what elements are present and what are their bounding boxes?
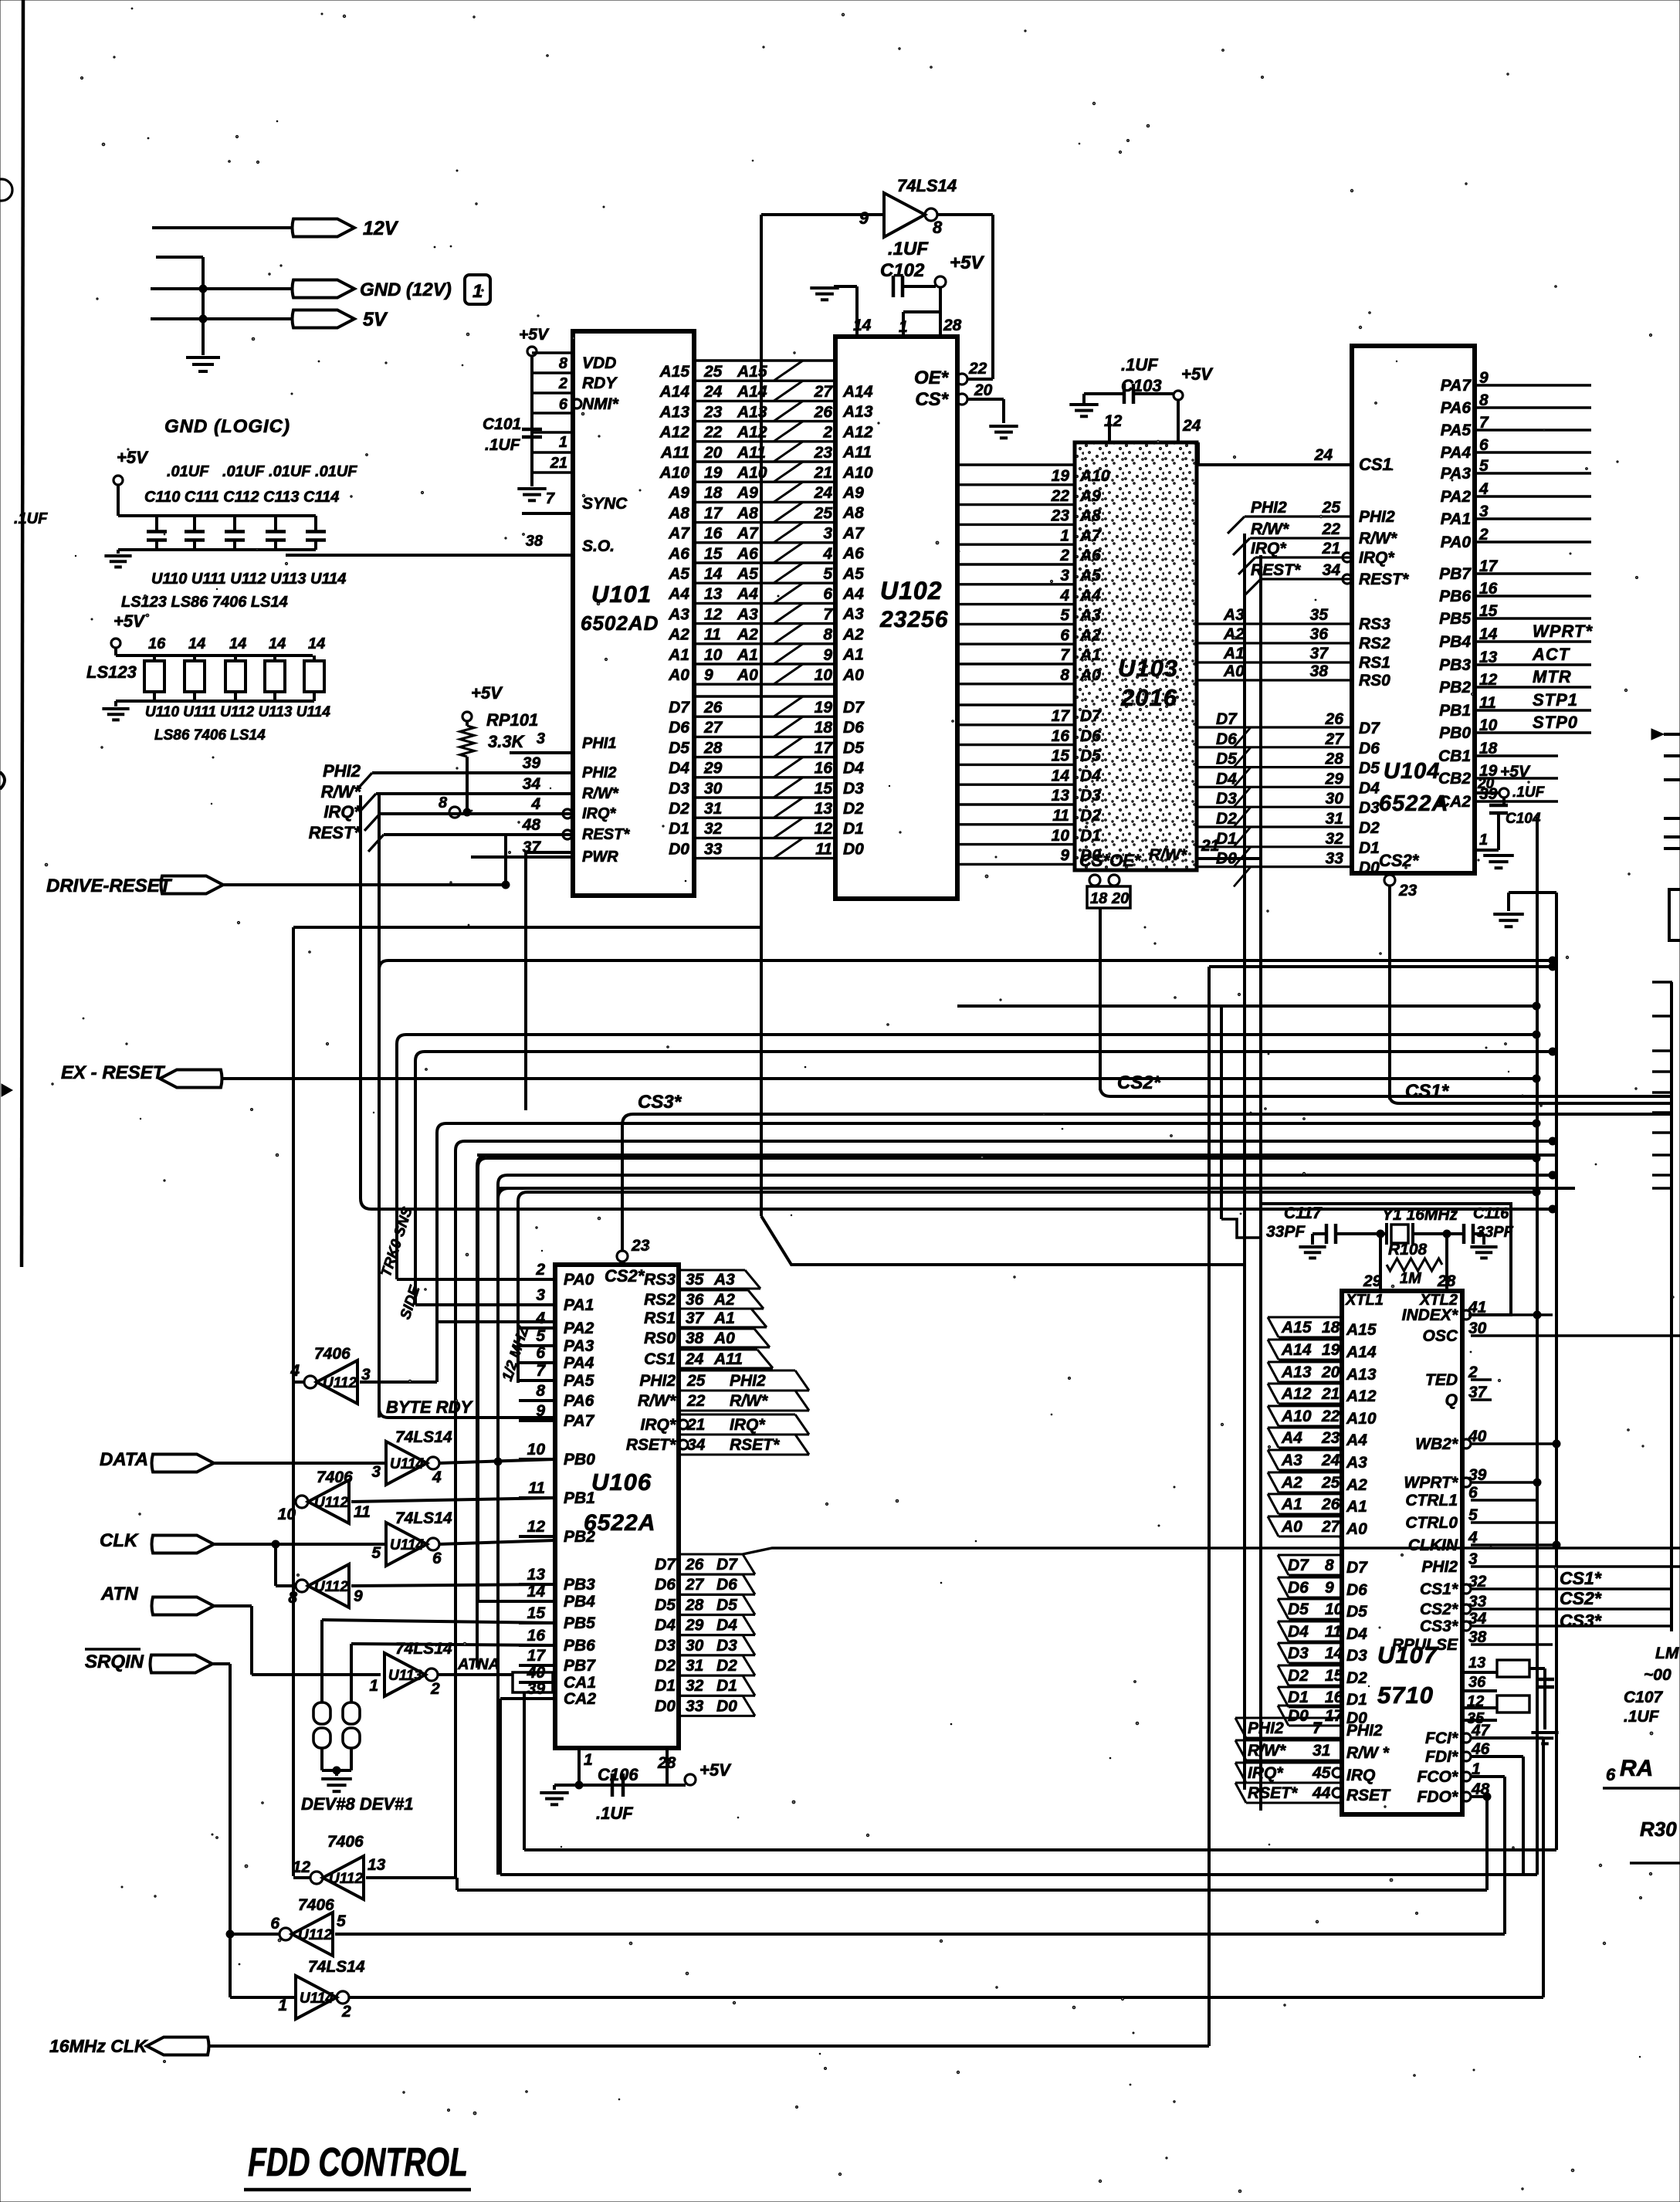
svg-text:PHI1: PHI1 [582,735,616,752]
svg-text:4: 4 [822,545,832,563]
svg-text:33: 33 [704,840,723,858]
svg-text:17: 17 [815,739,834,757]
svg-text:8: 8 [288,1589,297,1607]
svg-text:WB2*: WB2* [1415,1435,1458,1453]
svg-text:A7: A7 [668,525,690,543]
svg-text:BYTE RDY: BYTE RDY [386,1397,474,1417]
svg-text:PA0: PA0 [564,1271,594,1289]
svg-text:FCO*: FCO* [1417,1768,1458,1786]
svg-text:D4: D4 [655,1617,676,1635]
svg-text:PB0: PB0 [564,1451,595,1469]
svg-text:A1: A1 [668,646,689,664]
svg-text:RS3: RS3 [1359,615,1390,633]
svg-text:D4: D4 [716,1617,737,1635]
svg-text:RS0: RS0 [1359,672,1390,689]
svg-text:5: 5 [337,1912,346,1930]
svg-text:S.O.: S.O. [582,537,615,555]
svg-text:38: 38 [686,1330,704,1347]
svg-text:D5: D5 [1080,747,1101,765]
svg-text:3: 3 [537,730,545,747]
svg-text:R/W*: R/W* [1248,1742,1286,1760]
svg-text:PHI2: PHI2 [1248,1719,1284,1737]
svg-text:D5: D5 [716,1596,737,1614]
svg-text:5: 5 [1060,607,1069,625]
svg-text:A0: A0 [713,1330,735,1347]
svg-text:D3: D3 [1359,799,1380,817]
svg-text:R108: R108 [1388,1241,1428,1259]
svg-text:1: 1 [472,281,483,302]
svg-text:D1: D1 [843,820,864,838]
svg-text:14: 14 [229,635,246,652]
svg-text:FCI*: FCI* [1425,1729,1458,1747]
svg-text:22: 22 [968,360,987,378]
svg-text:D6: D6 [655,1576,676,1594]
svg-text:D1: D1 [1080,827,1101,845]
svg-text:74LS14: 74LS14 [395,1509,452,1527]
svg-text:IRQ*: IRQ* [730,1416,765,1434]
svg-text:PB0: PB0 [1439,724,1471,742]
svg-text:11: 11 [354,1503,371,1521]
svg-text:36: 36 [1468,1674,1486,1691]
svg-text:IRQ*: IRQ* [1359,549,1394,567]
svg-text:RSET*: RSET* [626,1436,676,1454]
svg-text:A2: A2 [1346,1476,1367,1494]
svg-text:6: 6 [823,585,832,603]
svg-text:22: 22 [1322,520,1341,538]
svg-text:33: 33 [686,1697,704,1715]
svg-text:7: 7 [1060,646,1070,664]
svg-text:D6: D6 [1288,1579,1309,1597]
svg-text:R/W *: R/W * [1346,1744,1390,1762]
svg-text:PB5: PB5 [564,1614,595,1632]
svg-text:A12: A12 [842,423,873,441]
svg-text:10: 10 [1052,827,1070,845]
svg-text:IRQ*: IRQ* [323,802,361,822]
svg-text:A9: A9 [668,484,689,502]
svg-text:A10: A10 [1281,1408,1312,1425]
svg-text:A3: A3 [737,605,758,623]
svg-text:24: 24 [703,383,723,401]
svg-text:7406: 7406 [298,1896,334,1914]
svg-text:RS0: RS0 [644,1330,676,1347]
svg-text:EX - RESET: EX - RESET [61,1062,166,1083]
svg-text:U112: U112 [298,1927,332,1943]
svg-text:RS3: RS3 [644,1271,676,1289]
svg-text:PB7: PB7 [564,1657,596,1675]
svg-text:28: 28 [1325,750,1344,768]
svg-text:A8: A8 [842,504,864,522]
svg-text:NMI*: NMI* [582,395,618,413]
svg-text:13: 13 [815,800,833,818]
svg-text:3: 3 [1060,567,1069,584]
svg-text:~00: ~00 [1644,1666,1672,1684]
svg-text:ATN: ATN [100,1584,138,1604]
svg-text:D6: D6 [669,719,689,737]
svg-text:A2: A2 [842,625,864,643]
svg-text:D4: D4 [1346,1625,1367,1643]
svg-text:9: 9 [1060,847,1069,865]
svg-text:TED: TED [1425,1371,1458,1389]
svg-text:PB4: PB4 [564,1593,595,1611]
svg-text:D1: D1 [655,1677,676,1695]
svg-text:17: 17 [704,504,723,522]
svg-text:7406: 7406 [317,1469,353,1486]
svg-text:A8: A8 [1079,507,1101,525]
svg-text:22: 22 [1051,487,1070,505]
svg-text:A2: A2 [1223,625,1245,643]
svg-text:26: 26 [814,403,833,421]
svg-text:CLK: CLK [100,1530,139,1551]
svg-text:.1UF: .1UF [1512,784,1546,801]
svg-text:D5: D5 [1359,760,1380,777]
svg-text:D4: D4 [1216,770,1237,788]
svg-text:23: 23 [1398,882,1417,899]
svg-text:6: 6 [432,1550,442,1567]
svg-text:74LS14: 74LS14 [395,1428,452,1446]
svg-text:PA3: PA3 [564,1337,594,1355]
svg-text:27: 27 [1321,1518,1341,1536]
svg-text:+5V: +5V [113,611,146,631]
svg-text:GND (12V): GND (12V) [360,279,452,300]
svg-text:19: 19 [815,699,833,716]
svg-text:REST*: REST* [1359,571,1409,588]
svg-text:D3: D3 [1346,1647,1367,1665]
svg-text:RS1: RS1 [644,1309,676,1327]
svg-text:D7: D7 [1288,1557,1309,1574]
svg-text:36: 36 [1310,625,1329,643]
svg-text:D7: D7 [1216,710,1238,728]
svg-text:D5: D5 [1288,1601,1309,1618]
svg-text:19: 19 [1052,467,1070,485]
svg-text:A9: A9 [737,484,758,502]
svg-text:D3: D3 [655,1637,676,1655]
svg-text:A13: A13 [1346,1366,1377,1384]
svg-text:LS86 7406 LS14: LS86 7406 LS14 [154,727,266,744]
svg-text:OE*: OE* [914,368,950,388]
svg-text:74LS14: 74LS14 [395,1640,452,1658]
svg-text:24: 24 [685,1350,704,1368]
svg-text:D3: D3 [1080,787,1101,805]
svg-text:CS1*: CS1* [1405,1081,1450,1102]
svg-text:PA5: PA5 [564,1372,594,1390]
svg-text:1: 1 [1479,832,1488,849]
svg-text:16: 16 [704,525,723,543]
svg-text:+5V: +5V [519,326,550,344]
svg-text:A14: A14 [1346,1343,1377,1361]
svg-text:2: 2 [430,1680,440,1698]
svg-text:29: 29 [1325,770,1344,788]
svg-text:D7: D7 [1080,707,1102,725]
svg-text:ACT: ACT [1532,645,1570,664]
svg-text:C117: C117 [1284,1204,1323,1222]
svg-text:U112: U112 [329,1871,363,1887]
svg-text:U112: U112 [314,1579,348,1595]
svg-text:.1UF: .1UF [14,510,48,527]
svg-text:PWR: PWR [582,849,618,866]
svg-text:25: 25 [1321,1474,1340,1492]
svg-text:OSC: OSC [1422,1327,1458,1345]
svg-text:38: 38 [526,533,544,550]
svg-text:+5V: +5V [471,683,503,703]
svg-text:PB3: PB3 [564,1576,595,1594]
svg-text:A1: A1 [713,1309,735,1327]
svg-text:IRQ: IRQ [1346,1767,1375,1784]
svg-text:15: 15 [704,545,723,563]
svg-text:D4: D4 [843,760,864,777]
svg-text:LM: LM [1655,1645,1679,1662]
svg-text:18: 18 [1090,890,1108,907]
svg-text:A0: A0 [1079,666,1101,684]
svg-text:CS1*: CS1* [1420,1580,1458,1598]
svg-text:23256: 23256 [879,607,948,632]
svg-text:D1: D1 [1216,830,1237,848]
svg-text:D3: D3 [1216,790,1237,808]
svg-text:A4: A4 [1346,1431,1367,1449]
svg-text:33: 33 [1326,850,1344,868]
svg-text:22: 22 [1321,1408,1340,1425]
svg-text:21: 21 [814,464,832,482]
svg-text:INDEX*: INDEX* [1402,1306,1458,1324]
svg-text:STP1: STP1 [1533,690,1578,710]
svg-text:26: 26 [685,1556,704,1574]
svg-text:D2: D2 [1080,807,1101,825]
svg-text:CS2*: CS2* [1420,1601,1458,1618]
svg-text:5: 5 [371,1544,381,1562]
svg-text:D5: D5 [843,739,864,757]
svg-text:REST*: REST* [582,826,630,843]
svg-text:9: 9 [859,208,869,228]
svg-text:3: 3 [361,1366,371,1384]
svg-text:A10: A10 [1079,467,1110,485]
svg-text:7: 7 [546,490,555,507]
svg-text:RS2: RS2 [1359,635,1390,652]
svg-text:17: 17 [527,1647,547,1665]
svg-text:2: 2 [535,1261,545,1279]
svg-text:18: 18 [1322,1319,1340,1336]
svg-text:CLKIN: CLKIN [1408,1536,1458,1554]
svg-text:D7: D7 [669,699,690,716]
svg-text:31: 31 [1326,810,1343,828]
svg-text:D2: D2 [1346,1669,1367,1687]
svg-text:35: 35 [686,1271,704,1289]
svg-text:A0: A0 [737,666,758,684]
svg-text:A3: A3 [1223,606,1245,624]
svg-text:FDI*: FDI* [1425,1748,1458,1766]
svg-text:PB4: PB4 [1439,633,1471,651]
svg-text:D0: D0 [1359,859,1380,877]
svg-text:D2: D2 [843,800,864,818]
svg-text:D7: D7 [1346,1559,1368,1577]
svg-text:21: 21 [1321,1385,1340,1403]
svg-text:32: 32 [1326,830,1344,848]
svg-text:RP101: RP101 [486,710,538,730]
svg-text:34: 34 [687,1436,706,1454]
svg-text:20: 20 [703,444,723,462]
svg-text:24: 24 [1182,417,1201,435]
svg-text:A9: A9 [842,484,864,502]
svg-text:D5: D5 [669,739,689,757]
svg-text:PA1: PA1 [564,1296,594,1314]
svg-text:A5: A5 [668,565,689,583]
svg-text:A10: A10 [842,464,873,482]
svg-text:D1: D1 [1288,1689,1309,1706]
svg-text:RA: RA [1620,1756,1653,1781]
svg-text:PHI2: PHI2 [1346,1722,1383,1740]
svg-text:11: 11 [1052,807,1069,825]
svg-text:CS3*: CS3* [1420,1618,1458,1635]
svg-text:10: 10 [527,1441,546,1458]
svg-text:31: 31 [686,1657,703,1675]
svg-text:CS3*: CS3* [1560,1611,1602,1631]
svg-text:U114: U114 [390,1456,424,1472]
svg-text:SRQIN: SRQIN [85,1651,144,1672]
svg-text:D3: D3 [716,1637,737,1655]
svg-text:R30: R30 [1640,1817,1677,1841]
svg-text:U112: U112 [314,1495,348,1511]
svg-text:IRQ*: IRQ* [1248,1764,1283,1782]
svg-text:A13: A13 [659,403,689,421]
svg-text:DRIVE-RESET: DRIVE-RESET [46,876,173,896]
svg-text:10: 10 [815,666,833,684]
svg-text:3: 3 [536,1286,545,1304]
svg-text:14: 14 [269,635,286,652]
svg-text:CS*: CS* [915,389,949,410]
svg-text:D7: D7 [1359,720,1380,737]
svg-text:23: 23 [814,444,833,462]
svg-text:PA5: PA5 [1441,422,1472,439]
svg-text:D0: D0 [1288,1707,1309,1725]
svg-text:WPRT*: WPRT* [1533,622,1593,641]
svg-text:17: 17 [1052,707,1071,725]
svg-text:12V: 12V [363,218,399,239]
svg-text:U114: U114 [300,1990,334,2007]
svg-text:PA1: PA1 [1441,510,1471,528]
svg-text:24: 24 [1321,1452,1340,1469]
svg-text:A1: A1 [842,646,864,664]
svg-text:7406: 7406 [327,1833,364,1851]
svg-text:1: 1 [559,434,567,451]
svg-text:CB1: CB1 [1438,747,1471,765]
svg-text:1: 1 [584,1751,593,1769]
svg-text:A1: A1 [1346,1498,1367,1516]
svg-text:12: 12 [293,1858,311,1876]
svg-text:.1UF: .1UF [1121,355,1158,374]
svg-text:20: 20 [1111,890,1129,907]
svg-text:A14: A14 [1281,1341,1312,1359]
svg-text:5V: 5V [363,309,388,330]
svg-text:13: 13 [1052,787,1070,805]
svg-text:XTL1: XTL1 [1345,1292,1384,1309]
svg-text:A8: A8 [668,504,689,522]
svg-text:28: 28 [943,317,962,334]
svg-text:CS1: CS1 [1359,455,1392,474]
svg-text:A2: A2 [668,626,689,644]
svg-text:12: 12 [815,820,833,838]
svg-text:U110 U111 U112 U113 U114: U110 U111 U112 U113 U114 [151,571,346,588]
svg-text:35: 35 [1310,606,1329,624]
svg-text:A3: A3 [668,605,689,623]
svg-text:PHI2: PHI2 [730,1372,766,1390]
svg-text:CS1: CS1 [644,1350,676,1368]
svg-text:D6: D6 [716,1576,737,1594]
svg-text:PA7: PA7 [564,1412,595,1430]
svg-text:26: 26 [1321,1496,1340,1513]
svg-text:39: 39 [527,1680,546,1698]
svg-text:25: 25 [703,363,723,381]
svg-text:D2: D2 [669,800,689,818]
svg-text:A3: A3 [1281,1452,1302,1469]
svg-text:A5: A5 [737,565,758,583]
svg-text:3.3K: 3.3K [488,732,526,751]
svg-text:A5: A5 [1079,567,1101,584]
svg-text:A14: A14 [659,383,689,401]
svg-text:A11: A11 [842,444,872,462]
svg-text:CA2: CA2 [1438,793,1471,811]
svg-text:D5: D5 [1216,750,1237,768]
svg-text:A13: A13 [1281,1364,1312,1381]
svg-text:29: 29 [685,1617,704,1635]
svg-text:28: 28 [685,1596,704,1614]
svg-text:+5V: +5V [699,1760,732,1780]
svg-text:A0: A0 [668,666,689,684]
svg-text:A12: A12 [1281,1385,1312,1403]
svg-text:PB7: PB7 [1439,565,1472,583]
svg-text:30: 30 [704,780,723,798]
svg-text:C106: C106 [598,1765,638,1784]
svg-text:RS1: RS1 [1359,654,1390,672]
svg-text:14: 14 [308,635,325,652]
svg-text:U104: U104 [1384,759,1440,784]
svg-text:A3: A3 [842,605,864,623]
svg-text:1: 1 [1060,527,1069,544]
svg-text:20: 20 [1477,776,1495,792]
svg-text:D3: D3 [843,780,864,798]
svg-text:23: 23 [1321,1429,1340,1447]
svg-text:C104: C104 [1506,811,1541,827]
svg-text:36: 36 [686,1291,704,1309]
svg-text:IRQ*: IRQ* [640,1416,676,1434]
svg-text:A7: A7 [737,525,759,543]
svg-text:A4: A4 [668,585,689,603]
svg-text:A6: A6 [842,545,864,563]
svg-text:A1: A1 [1079,646,1101,664]
svg-text:25: 25 [1322,499,1341,517]
svg-text:A4: A4 [1079,587,1101,605]
svg-text:14: 14 [1052,767,1070,784]
svg-text:RSET: RSET [1346,1787,1391,1804]
svg-text:RPULSE: RPULSE [1392,1636,1458,1654]
svg-text:10: 10 [704,646,723,664]
svg-text:A2: A2 [737,626,758,644]
svg-text:14: 14 [704,565,723,583]
svg-text:PHI2: PHI2 [1359,508,1395,526]
svg-text:A15: A15 [1281,1319,1312,1336]
svg-text:FDD CONTROL: FDD CONTROL [248,2140,468,2185]
svg-text:23: 23 [1051,507,1070,525]
svg-text:A10: A10 [659,464,689,482]
svg-text:A3: A3 [713,1271,735,1289]
svg-text:19: 19 [704,464,723,482]
svg-text:9: 9 [704,666,713,684]
svg-text:PA4: PA4 [1441,444,1472,462]
svg-text:PA7: PA7 [1441,377,1472,395]
svg-text:D7: D7 [843,699,865,716]
svg-text:CB2: CB2 [1438,770,1471,788]
svg-text:9: 9 [1325,1579,1334,1597]
svg-text:C107: C107 [1624,1689,1664,1706]
svg-text:D6: D6 [1216,730,1237,748]
svg-text:A9: A9 [1079,487,1101,505]
